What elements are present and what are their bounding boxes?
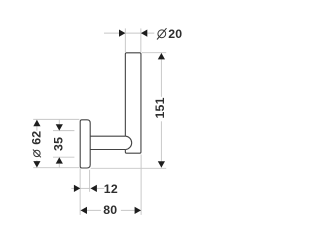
arm top line [90,135,125,137]
dim80 left arrow (points left) [81,207,87,214]
dim35 bottom extension line [53,156,74,158]
svg-text:62: 62 [30,131,44,145]
dia20 dimension line [104,32,154,34]
dim35 upper arrow (points down) [56,124,63,130]
dim151 bottom extension line [91,167,167,169]
dim80 right extension line [140,155,142,215]
dia20 extension line right [140,28,142,52]
dim12 dimension line middle segment [80,187,90,189]
dia20 extension line left [124,28,126,52]
svg-text:35: 35 [51,137,65,151]
arm end bulge arc [126,136,132,149]
dim80 dimension line left segment [81,209,101,211]
dim151 top arrow [158,53,165,59]
dim151 dimension line upper segment [160,53,162,97]
dia20 left arrow [119,30,125,37]
vertical rod outline [125,53,141,153]
svg-text:20: 20 [168,27,182,41]
dia62 top extension line [33,118,79,120]
wall plate outline [80,120,90,168]
dia62 dimension line lower segment [36,160,38,167]
dim12 left arrow (points right) [74,185,80,192]
dim151 dimension line lower segment [160,121,162,167]
dim35 top extension line [53,130,74,132]
dia20 diameter symbol [157,28,167,39]
dim80 dimension line right segment [121,209,141,211]
dim12 dimension line left tail [71,187,74,189]
dia62 dimension line upper segment [36,120,38,131]
dim12 left extension line [79,169,81,194]
dim35 dimension line upper segment [58,120,60,125]
dim12 right extension line [89,170,91,192]
dia62 diameter symbol (rotated) [33,150,41,158]
dim80 left extension line [79,193,81,215]
dim35 dimension line lower segment [58,164,60,168]
dim151 bottom arrow [158,161,165,167]
svg-text:80: 80 [103,203,117,217]
dim151 top extension line [142,52,166,54]
dim35 lower arrow (points up) [56,157,63,163]
dim80 right arrow (points right) [135,207,141,214]
dia62 bottom extension line [33,167,79,169]
dia62 top arrow [33,120,40,126]
dia62 bottom arrow [33,161,40,167]
dia20 right arrow [141,30,147,37]
arm bottom line [90,149,125,151]
svg-text:12: 12 [104,182,118,196]
dim12 right arrow (points left) [91,185,97,192]
svg-text:151: 151 [153,97,167,118]
dim12 dimension line right tail [97,187,104,189]
